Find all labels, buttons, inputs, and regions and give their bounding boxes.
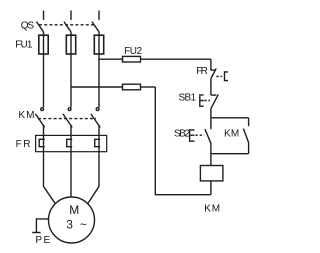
coil KM (200, 166, 223, 181)
svg-text:SB1: SB1 (179, 93, 197, 104)
fuse FU2 lower (123, 84, 141, 90)
fuse FU2 upper (123, 56, 141, 62)
contactor KM main contact 3 blade (91, 114, 100, 128)
contactor KM main contact 2 blade (63, 114, 72, 128)
svg-text:KM: KM (18, 110, 34, 121)
label FR (heaters) (16, 139, 31, 150)
label M (motor) (69, 203, 79, 217)
fuse FU1 pole 2 (66, 35, 75, 54)
svg-text:FU2: FU2 (124, 46, 142, 57)
wire SB2 to coil (210, 144, 212, 165)
wire return bottom and left riser (155, 87, 211, 195)
svg-text:FR: FR (196, 66, 208, 77)
switch QS pole 1 blade (36, 22, 43, 32)
contactor KM main contact 3 terminal circle (96, 108, 99, 111)
wire L1 to FR box (43, 125, 45, 135)
label KM (main contacts) (18, 110, 34, 121)
svg-text:KM: KM (204, 203, 220, 214)
label PE (35, 235, 50, 246)
wire tap L3 to control (99, 58, 123, 60)
wire L2 to FR box (70, 125, 72, 135)
label KM (aux contact) (224, 129, 239, 140)
wire L2 FR box to motor (70, 152, 72, 197)
wire L1 top stub (43, 11, 45, 20)
label FU1 (15, 40, 33, 51)
label KM (coil) (204, 203, 220, 214)
contactor KM main linkage (dashed) (38, 118, 96, 120)
svg-text:KM: KM (224, 129, 239, 140)
button SB2 blade (205, 129, 211, 144)
contact KM aux blade (243, 129, 248, 143)
svg-text:3 ~: 3 ~ (66, 217, 87, 231)
wire L1 fuse section (43, 32, 45, 108)
wire L2 top stub (70, 11, 72, 20)
button SB2 link (dashed) (195, 134, 204, 136)
label QS (21, 20, 35, 31)
FR actuator link (dashed) (216, 75, 222, 77)
FR heater element 1 (39, 135, 45, 151)
button SB1 link (dashed) (204, 100, 210, 102)
fuse FU1 pole 1 (39, 35, 48, 54)
FR thermal actuator bracket (225, 72, 229, 81)
FR heater element 2 (67, 135, 73, 151)
contactor KM main contact 1 terminal circle (41, 108, 44, 111)
ground PE bar (32, 232, 40, 234)
button SB1 blade (211, 94, 218, 108)
thermal relay FR box (36, 135, 107, 151)
wire L3 FR box to motor (88, 152, 99, 204)
svg-text:FU1: FU1 (15, 40, 33, 51)
svg-text:QS: QS (21, 20, 35, 31)
contactor KM main contact 1 blade (35, 114, 44, 128)
wire L3 fuse section (98, 32, 100, 108)
switch QS linkage (dashed) (39, 24, 96, 26)
wire L3 to FR box (98, 125, 100, 135)
wire L3 top stub (98, 11, 100, 20)
FR heater element 3 (95, 135, 101, 151)
switch QS pole 3 blade (92, 22, 99, 32)
svg-text:PE: PE (35, 235, 50, 246)
wire KM aux upper (248, 118, 250, 126)
wire tap L2 to control (71, 86, 123, 88)
wire branch rail upper (211, 117, 249, 119)
label 3 ~ (motor) (66, 217, 87, 231)
fuse FU1 pole 3 (94, 35, 103, 54)
wire coil to bottom (210, 181, 212, 195)
wire L2 fuse section (70, 32, 72, 108)
FR NC contact fixed tick (211, 69, 216, 71)
contactor KM main contact 2 terminal circle (68, 108, 71, 111)
wire L1 FR box to motor (44, 152, 56, 204)
ground PE lead (36, 219, 48, 233)
label FU2 (124, 46, 142, 57)
button SB1 actuator E (200, 95, 204, 106)
label SB2 (174, 129, 191, 140)
wire FU2 upper to FR contact (141, 58, 211, 60)
svg-text:M: M (69, 203, 79, 217)
svg-text:FR: FR (16, 139, 31, 150)
wire KM aux lower (248, 143, 250, 154)
FR NC contact blade (211, 68, 216, 78)
wire control down to FR contact (210, 59, 212, 70)
label SB1 (179, 93, 197, 104)
wire SB1 to SB2 (210, 108, 212, 129)
label FR (contact) (196, 66, 208, 77)
switch QS pole 2 blade (64, 22, 71, 32)
button SB1 fixed tick (211, 94, 217, 96)
button SB2 actuator E (190, 130, 195, 141)
wire FU2 lower to return corner (141, 86, 156, 88)
svg-text:SB2: SB2 (174, 129, 191, 140)
wire branch rail lower (211, 153, 249, 155)
wire FR contact to SB1 (210, 79, 212, 96)
motor M 3~ circle (49, 197, 95, 243)
